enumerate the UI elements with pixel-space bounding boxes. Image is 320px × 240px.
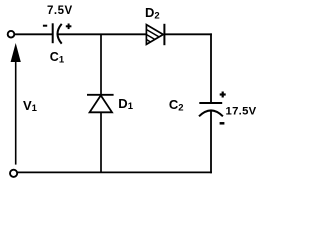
- wire D1 to bottom rail: [100, 112, 102, 172]
- wire top-left to C1: [15, 33, 53, 35]
- diode D1: [87, 95, 114, 113]
- svg-text:D1: D1: [118, 96, 133, 112]
- wire right rail top: [210, 33, 212, 103]
- polarity plus C1: [66, 24, 72, 30]
- polarity minus C2: [220, 122, 225, 125]
- capacitor C2: [199, 103, 223, 116]
- svg-text:D2: D2: [145, 5, 160, 22]
- wire C1 to D2: [58, 33, 147, 35]
- diode D2: [146, 24, 164, 45]
- voltage arrow V1: [11, 43, 21, 165]
- node junction top: [100, 34, 102, 95]
- terminal bottom-left: [10, 170, 17, 177]
- wire bottom rail: [17, 171, 212, 173]
- capacitor C1: [53, 23, 62, 43]
- svg-text:C2: C2: [169, 97, 184, 114]
- svg-text:C1: C1: [50, 50, 65, 66]
- polarity plus C2: [220, 92, 226, 98]
- wire right rail bottom: [210, 111, 212, 174]
- terminal top-left: [8, 31, 15, 38]
- svg-text:7.5V: 7.5V: [47, 5, 73, 17]
- polarity minus C1: [43, 25, 47, 27]
- svg-text:17.5V: 17.5V: [226, 106, 257, 118]
- svg-text:V1: V1: [23, 98, 38, 114]
- wire D2 to top-right corner: [164, 33, 212, 35]
